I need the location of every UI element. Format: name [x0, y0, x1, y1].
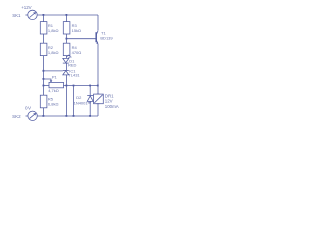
wire R3-R4	[66, 34, 68, 43]
relay DR1	[94, 86, 104, 116]
svg-text:D2: D2	[76, 95, 82, 100]
node junction pot left	[43, 85, 45, 87]
wiper arrowhead	[50, 80, 53, 82]
node junction top rail col2	[66, 14, 68, 16]
svg-text:BD139: BD139	[100, 35, 113, 40]
wire col1 bottom	[43, 108, 45, 116]
svg-text:4,7kΩ: 4,7kΩ	[48, 88, 59, 93]
node junction col2 on bottom rail	[66, 115, 68, 117]
wire top rail	[37, 14, 98, 16]
svg-text:12V: 12V	[105, 99, 113, 104]
wire base	[67, 38, 96, 40]
resistor R2	[40, 43, 47, 55]
svg-text:+12V: +12V	[21, 5, 31, 10]
wire TL431 ref line	[44, 70, 63, 72]
svg-text:470Ω: 470Ω	[72, 50, 82, 55]
label arrow to D2	[88, 102, 90, 104]
node junction col1 rail	[43, 115, 45, 117]
svg-text:1,8kΩ: 1,8kΩ	[48, 50, 59, 55]
node junction x73.6 rail	[73, 115, 75, 117]
wire col2 top	[66, 15, 68, 22]
wire LED-TL431	[66, 63, 68, 70]
wire branch x73.6	[73, 86, 75, 116]
node junction diode mid	[89, 85, 91, 87]
node junction diode rail	[89, 115, 91, 117]
connector SK1	[25, 10, 37, 19]
wire bottom rail	[37, 115, 98, 117]
wire R1-R2	[43, 34, 45, 43]
wire R4-LED	[66, 56, 68, 59]
wire pot left lead	[44, 85, 50, 87]
svg-text:SK1: SK1	[12, 13, 21, 18]
svg-text:15kΩ: 15kΩ	[72, 28, 81, 33]
diode D2 1N4001	[87, 86, 93, 116]
svg-text:SK2: SK2	[12, 114, 21, 119]
wire col1 top	[43, 15, 45, 22]
svg-text:1N4001: 1N4001	[74, 100, 89, 105]
wire mid line emitter net	[64, 85, 99, 87]
node junction top rail col1	[43, 14, 45, 16]
wire col1 middle	[43, 56, 45, 96]
potentiometer P1	[49, 82, 64, 87]
resistor R4	[63, 43, 70, 55]
resistor R3	[63, 22, 70, 34]
node junction emitter mid line	[97, 85, 99, 87]
resistor R1	[40, 22, 47, 34]
node junction wiper line	[43, 78, 45, 80]
svg-text:P1: P1	[52, 75, 58, 80]
svg-text:1,8kΩ: 1,8kΩ	[48, 28, 59, 33]
node junction col2 on mid line	[66, 85, 68, 87]
svg-text:RED: RED	[68, 63, 77, 68]
LED D1	[63, 55, 72, 64]
resistor R5	[40, 95, 47, 108]
svg-text:100mA: 100mA	[105, 104, 119, 109]
svg-text:0V: 0V	[25, 105, 32, 110]
transistor T1 BD139	[96, 31, 98, 86]
node junction ref line	[43, 70, 45, 72]
node junction base	[66, 38, 68, 40]
wire collector drop	[97, 15, 99, 31]
svg-text:DR1: DR1	[105, 93, 114, 98]
node junction x73.6 mid	[73, 85, 75, 87]
shunt regulator IC1 TL431	[63, 70, 69, 75]
svg-text:6,8kΩ: 6,8kΩ	[48, 102, 59, 107]
svg-text:TL431: TL431	[68, 73, 80, 78]
wire pot wiper	[44, 79, 52, 81]
wire TL431 anode down	[66, 75, 68, 116]
connector SK2	[26, 111, 38, 120]
